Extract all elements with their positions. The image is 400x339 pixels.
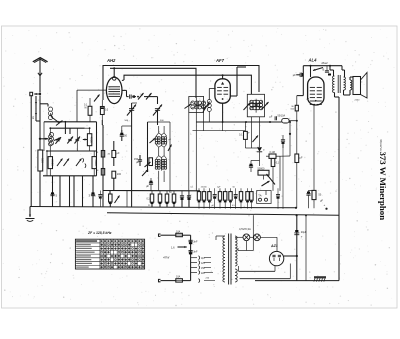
- antenna jack J1: [30, 92, 33, 95]
- cap C13 (150): [138, 159, 142, 161]
- trimmer arrow T1a: [150, 138, 156, 143]
- coil L2b: [48, 135, 52, 139]
- wire AF7 topcap: [222, 75, 224, 79]
- cap C9 grid: [129, 95, 131, 99]
- wire B+ rail: [296, 122, 298, 154]
- resistor R24 bus: [208, 188, 210, 191]
- resistor R29 bus: [247, 188, 249, 191]
- svg-text:AH2: AH2: [106, 58, 116, 63]
- wire af drops: [263, 187, 265, 191]
- resistor R30 bus: [250, 188, 252, 191]
- svg-text:5000: 5000: [94, 159, 98, 166]
- wire left block verticals: [43, 122, 45, 151]
- svg-text:Mod.: Mod.: [322, 61, 329, 65]
- lamp La1: [243, 234, 250, 241]
- svg-text:AF7: AF7: [215, 58, 225, 63]
- wire sub rail: [103, 190, 200, 192]
- resistor R21 cath: [312, 190, 316, 199]
- wire BF1 box: [189, 97, 204, 113]
- svg-text:ZF = 128,5 kHz: ZF = 128,5 kHz: [87, 231, 112, 235]
- wire lamp drop: [252, 215, 254, 250]
- cap C21 (B): [325, 70, 329, 72]
- wire C18 drop: [282, 144, 284, 190]
- wire avc to R16: [280, 155, 290, 157]
- contact arrow mid: [83, 139, 87, 141]
- trimmer arrow T4a: [244, 103, 251, 110]
- switch S1b: [54, 138, 61, 141]
- wire grid left rail: [77, 89, 107, 91]
- trimmer arrow T2a: [145, 162, 151, 167]
- cap C27 bus: [235, 188, 237, 194]
- wire antenna stem arrowhead: [38, 73, 42, 76]
- svg-text:µF: µF: [146, 185, 149, 188]
- wire detector row: [196, 121, 282, 123]
- switch S5: [138, 93, 144, 100]
- switch S9 bus: [115, 196, 120, 204]
- svg-text:25000: 25000: [201, 187, 208, 189]
- svg-text:B: B: [323, 68, 325, 72]
- svg-text:4000: 4000: [90, 136, 94, 143]
- wire avc down: [289, 122, 291, 156]
- switch S1a: [51, 113, 52, 117]
- wire jack down to ground rail: [30, 96, 32, 207]
- wire tcap tops: [132, 102, 137, 104]
- resistor R28 bus: [240, 188, 242, 191]
- svg-text:10A: 10A: [176, 230, 181, 233]
- wire BF2 verts: [251, 117, 253, 148]
- cap C17 det: [249, 165, 253, 167]
- tube AF7 V2: [215, 79, 230, 103]
- cap C20 (uF): [299, 73, 301, 77]
- cap C7 (5): [50, 193, 54, 195]
- switch S4c: [76, 159, 82, 167]
- trimmer arrow T1b: [168, 145, 172, 152]
- coil T2 oscillator: [155, 159, 158, 162]
- wire c12: [121, 126, 123, 130]
- chassis ground G2: [314, 276, 326, 278]
- resistor R7: [112, 151, 116, 158]
- wire AF7 cathode: [222, 103, 224, 122]
- svg-text:M: M: [85, 107, 87, 109]
- transformer T6 secondary heater: [235, 269, 237, 282]
- resistor R17: [271, 159, 275, 167]
- wire R1 to ground bus: [39, 171, 41, 207]
- switch S plug contacts: [35, 96, 37, 105]
- cap C15 bus: [181, 191, 183, 196]
- wire rail A: [103, 66, 259, 101]
- wire BF1 drops: [188, 113, 190, 207]
- svg-text:µF: µF: [136, 161, 139, 164]
- wire det junction: [245, 147, 259, 149]
- switch S3c: [75, 137, 81, 144]
- resistor R23 bus: [203, 188, 205, 191]
- wire left block mid rail: [47, 150, 97, 152]
- valve voltage table: [75, 239, 144, 269]
- resistor R19 AL4: [295, 105, 298, 111]
- switch S6: [146, 93, 152, 100]
- speaker LS1: [350, 80, 352, 90]
- svg-text:100: 100: [117, 173, 122, 176]
- svg-text:1,6: 1,6: [171, 245, 175, 249]
- trimmer arrow T3b: [203, 104, 210, 109]
- wire sub rail drops: [109, 191, 111, 194]
- switch S3a: [55, 137, 61, 144]
- trimmer arrow T4b: [262, 102, 269, 109]
- resistor R1 (150): [39, 139, 41, 150]
- wire AZ1 cathode right: [284, 255, 297, 257]
- svg-text:50/10A: 50/10A: [278, 114, 286, 117]
- resistor R22 bus: [198, 188, 200, 191]
- wire AL4 topcap: [310, 66, 312, 70]
- wire rail B: [110, 68, 196, 98]
- tuning cap C11: [155, 108, 160, 110]
- junction bus ends: [338, 214, 340, 215]
- svg-text:50000: 50000: [258, 167, 266, 170]
- tube AH2 V1: [106, 77, 122, 103]
- svg-text:µF: µF: [293, 73, 296, 77]
- wire AF7 anode: [230, 95, 237, 97]
- cap C14 (uF): [149, 182, 153, 184]
- wire screen row: [193, 130, 246, 132]
- svg-text:Minerva: Minerva: [379, 139, 383, 151]
- switch S4b: [64, 159, 70, 167]
- wire stem lower: [35, 115, 37, 121]
- transformer T6 primary: [223, 236, 225, 282]
- cap C28 bus: [277, 188, 279, 194]
- wire AZ1 filament left: [238, 266, 240, 271]
- cap C16 bus: [188, 191, 190, 196]
- wire left col down: [102, 120, 104, 206]
- lamp La2: [254, 234, 261, 241]
- resistor Rosc: [149, 158, 153, 166]
- svg-text:373 W Minerphon: 373 W Minerphon: [378, 152, 388, 221]
- coil T1 oscillator: [155, 137, 158, 140]
- ground symbol G1: [29, 208, 31, 217]
- junction dots left block: [49, 127, 51, 129]
- svg-text:4,5V/0,3A: 4,5V/0,3A: [239, 227, 251, 231]
- ground bus 1: [30, 207, 296, 208]
- diode D1: [257, 147, 262, 151]
- cap C19 (uF): [274, 116, 276, 120]
- wire AZ1 filament right: [240, 278, 291, 280]
- resistor R27 bus: [230, 188, 232, 191]
- wire AL4 cathode: [313, 105, 315, 190]
- coil L1: [48, 107, 52, 111]
- resistor R26 bus: [224, 188, 226, 191]
- cap C23 (3nF): [189, 239, 193, 241]
- wire to coil L1: [40, 103, 48, 105]
- voltage selector taps: [191, 257, 197, 259]
- coil L3 left: [207, 100, 211, 104]
- switch S3b: [67, 137, 73, 144]
- svg-text:3nF: 3nF: [193, 251, 198, 254]
- wire trafo top: [329, 66, 331, 70]
- resistor R3 (4000): [87, 134, 91, 146]
- wire output top rail: [303, 65, 342, 67]
- IF transformer T3: [191, 101, 195, 105]
- wire rail C: [124, 75, 251, 94]
- switch S11 af: [262, 181, 270, 186]
- cap C26 bus: [214, 188, 216, 194]
- wire osc mids: [158, 147, 160, 155]
- resistor R11 bus: [159, 191, 161, 194]
- cap C12 (50): [120, 134, 124, 136]
- wire left block rail2: [50, 127, 85, 129]
- resistor R4 (2000): [48, 157, 52, 169]
- cap C24 (3nF): [189, 250, 193, 252]
- tuning cap C10: [129, 108, 134, 110]
- tube AL4 V3: [308, 77, 324, 105]
- mains terminal N: [159, 279, 161, 281]
- resistor R8 (100): [112, 171, 116, 178]
- bracket contacts: [83, 158, 84, 162]
- wire BF2 box: [247, 94, 264, 117]
- svg-text:50: 50: [124, 134, 127, 138]
- svg-text:µF: µF: [300, 157, 303, 160]
- ground bus 2: [107, 213, 339, 215]
- svg-text:0,1M: 0,1M: [270, 151, 275, 154]
- resistor R25 bus: [219, 188, 221, 191]
- switch S8: [142, 170, 148, 177]
- switch S5b: [94, 95, 100, 102]
- wire right return: [255, 280, 339, 282]
- wire AH2 grid row: [122, 89, 127, 91]
- wire grid to tcap2: [144, 96, 158, 98]
- trimmer arrow T3a: [185, 104, 192, 109]
- switch S10 det: [253, 136, 259, 143]
- wire drops to bus: [52, 176, 54, 207]
- svg-text:AZ1: AZ1: [270, 244, 278, 248]
- resistor R6 (1M): [100, 107, 104, 115]
- wire left block top rail: [44, 121, 97, 123]
- antenna A1: [33, 58, 48, 62]
- coil L2: [49, 133, 53, 137]
- wire mains rail: [190, 235, 192, 280]
- cap C29 bus: [98, 194, 102, 196]
- switch S2: [56, 121, 63, 126]
- wire left block low rail: [43, 175, 97, 177]
- cap C8 (3): [91, 193, 95, 195]
- fuse F1 (10A): [176, 233, 183, 236]
- wire speaker return: [343, 90, 345, 95]
- switch S4a: [57, 159, 63, 167]
- wire AH2 plate right: [122, 79, 124, 82]
- resistor R20: [295, 154, 299, 163]
- svg-text:µF: µF: [117, 152, 120, 155]
- resistor Rx2 col: [101, 169, 104, 176]
- resistor R13 bus: [173, 191, 175, 194]
- junction node A: [39, 138, 41, 140]
- wire taps to primary: [204, 257, 211, 259]
- resistor R16 (1M): [269, 154, 276, 158]
- fuse F2 (10A): [176, 279, 183, 282]
- wire AH2 topcap: [113, 68, 115, 76]
- svg-text:+: +: [324, 203, 326, 207]
- pickup terminals TA: [257, 191, 271, 204]
- wire osc frame: [147, 122, 149, 172]
- svg-text:0,1: 0,1: [239, 134, 243, 137]
- resistor R9 bus: [109, 194, 113, 202]
- tube AZ1 V4: [269, 251, 283, 265]
- resistor R5 (5000): [92, 157, 96, 169]
- svg-text:150: 150: [40, 158, 44, 163]
- transformer T6 secondary HV: [235, 236, 237, 266]
- svg-text:+: +: [301, 235, 303, 239]
- svg-text:AL4: AL4: [308, 58, 318, 63]
- cap C18: [281, 139, 285, 141]
- svg-text:2200: 2200: [355, 100, 361, 102]
- resistor R14 det: [244, 131, 248, 139]
- mains terminal L: [159, 234, 161, 236]
- output transformer T5: [333, 76, 335, 93]
- transformer T6 core: [228, 234, 230, 285]
- resistor R10 bus: [151, 191, 153, 194]
- resistor Rx1 col: [101, 151, 104, 158]
- svg-text:10A: 10A: [176, 276, 181, 279]
- wire lamp row: [235, 236, 243, 238]
- resistor R6b (0,1M): [88, 106, 92, 115]
- svg-text:2000: 2000: [50, 159, 54, 166]
- IF transformer T4: [250, 100, 253, 103]
- cap C25 (20uF): [294, 232, 299, 234]
- contact arrow left: [44, 138, 49, 140]
- svg-text:TA: TA: [258, 194, 261, 198]
- volume pot R15 (50000): [258, 170, 269, 175]
- wire B+ vertical: [296, 215, 298, 280]
- resistor R12 bus: [166, 191, 168, 194]
- svg-text:3nF: 3nF: [193, 240, 198, 243]
- wire output return down: [334, 93, 336, 98]
- cap C22 cath: [306, 193, 310, 195]
